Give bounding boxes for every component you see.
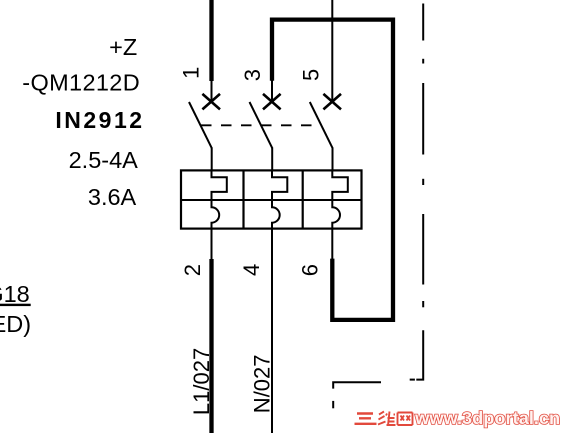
svg-text:G18: G18 [0,281,30,307]
svg-text:3.6A: 3.6A [88,184,137,210]
svg-text:3: 3 [240,69,265,81]
wire pole 3 below relay thin [331,228,333,260]
svg-text:1: 1 [179,67,204,79]
watermark chinese char wang [398,413,413,426]
watermark chinese char wei [378,412,396,426]
heater element pole 1 with trip bump [212,170,227,229]
wire pole 1 below relay thin [211,228,213,260]
wire pole 1 outgoing thick L1/027 [209,259,213,433]
thick jumper bus: pole2 top to pole3 bottom loop [272,20,393,320]
breaker -QM1212D blade pole 2 [250,102,273,148]
wire pole 2 blade to relay [271,148,273,172]
breaker -QM1212D contact X, pin 1 [202,94,220,110]
enclosure dashed corner bottom [333,382,381,388]
breaker -QM1212D blade pole 1 [189,102,212,148]
watermark chinese char san [355,414,377,424]
relay box middle line [181,199,362,201]
svg-text:6: 6 [298,264,323,276]
breaker -QM1212D blade pole 3 [310,102,333,148]
wire L1 phase incoming thick (pole 1 top) [209,0,213,81]
breaker -QM1212D contact X, pin 5 [323,94,341,110]
svg-text:2: 2 [180,264,205,276]
svg-text:IN2912: IN2912 [55,107,144,133]
wire pole 1 thin to contact [211,80,213,102]
svg-text:-QM1212D: -QM1212D [22,70,140,96]
enclosure dash below [332,401,334,408]
svg-text:ED): ED) [0,311,31,337]
svg-text:www.3dportal.cn: www.3dportal.cn [414,408,560,428]
svg-text:5: 5 [299,69,324,81]
panel boundary dash-dot line right [422,4,424,308]
relay box divider 1 [242,170,244,228]
svg-text:4: 4 [239,264,264,276]
relay box divider 2 [302,170,304,228]
thermal overload relay box of -QM1212D [181,170,362,228]
panel boundary dash left of corner [410,379,415,381]
heater element pole 3 with trip bump [332,170,348,229]
wire pole 3 incoming thin [331,0,333,102]
wire pole 2 thin to contact [271,80,273,102]
wire pole 3 blade to relay [332,148,334,172]
svg-text:+Z: +Z [109,34,137,60]
breaker -QM1212D contact X, pin 3 [263,94,281,110]
svg-text:N/027: N/027 [249,354,274,413]
svg-text:L1/027: L1/027 [189,348,214,415]
wire pole 1 blade to relay [211,148,213,172]
cross reference underline [0,304,31,306]
svg-text:2.5-4A: 2.5-4A [69,147,139,173]
wire pole 2 outgoing thin N/027 [271,228,273,433]
mechanical linkage dashed line of -QM1212D [201,124,318,126]
heater element pole 2 with trip bump [272,170,287,229]
panel boundary corner bottom right [416,330,423,379]
